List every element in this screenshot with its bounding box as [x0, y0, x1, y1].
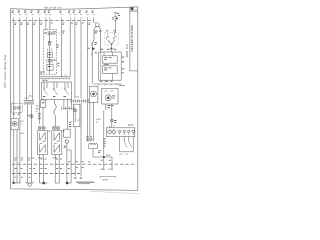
blower switch SW3 strip — [110, 125, 114, 127]
wire module left edge — [103, 111, 105, 158]
ground G100 bracket — [12, 182, 20, 183]
horizontal wire y157 — [93, 156, 112, 158]
circuit breaker CB1 — [47, 53, 52, 58]
relay labels below — [100, 80, 113, 83]
svg-text:1997 4.6: 1997 4.6 — [126, 44, 129, 58]
leads below — [90, 102, 94, 141]
wire x81 lower — [80, 103, 82, 164]
labels below bus A left — [15, 167, 84, 169]
relay K1 contact box — [103, 66, 118, 74]
blower resistor R1 box — [38, 131, 48, 155]
blower terminal circle 1a — [38, 126, 41, 129]
svg-text:BLK: BLK — [21, 133, 26, 135]
wire x=74.9 — [74, 21, 76, 99]
wires below C212 — [28, 105, 32, 183]
blower terminal circle 2a — [53, 126, 56, 129]
junction node J1 — [103, 156, 105, 158]
labels above bus A right — [68, 160, 90, 163]
corner box number — [131, 7, 134, 10]
leads below box — [106, 104, 112, 119]
SW2 top marks — [106, 29, 115, 32]
blower resistor R2 box — [52, 131, 62, 155]
svg-text:RES: RES — [106, 155, 111, 157]
svg-text:A/C: A/C — [21, 120, 25, 123]
page edge shadow bottom right — [90, 191, 140, 194]
F1 labels — [44, 31, 56, 34]
text block below comb B — [69, 122, 72, 127]
connector C212 comb — [24, 100, 35, 103]
blower motor M2 box — [102, 88, 118, 104]
connector block on wire — [111, 48, 113, 50]
C203 pins from box — [64, 100, 72, 107]
ground G201 bracket — [100, 176, 116, 178]
SW3 terminals — [118, 130, 120, 132]
wire from S1 down — [92, 26, 100, 84]
wire SW2 to K1 — [111, 45, 113, 52]
wire x=32.6 — [32, 21, 34, 101]
A/C clutch M1 box — [11, 119, 18, 130]
resistor R2 element — [54, 133, 60, 153]
text rows left — [38, 113, 41, 119]
wire from C105 — [115, 20, 116, 33]
connector C233 comb — [72, 100, 88, 102]
SW3 switch contacts — [124, 142, 131, 148]
ground junction dot G104 — [66, 182, 69, 185]
diode box D1 — [64, 129, 71, 137]
wire x=87.6 — [87, 21, 89, 142]
right column inner line — [130, 7, 138, 71]
connector paren upper — [91, 43, 92, 46]
wire x=13.8 — [13, 21, 15, 118]
F2 label — [53, 59, 55, 62]
specks below bus B — [15, 176, 31, 179]
bottom dashed bus B — [12, 173, 81, 175]
svg-text:HEATER SYSTEM: HEATER SYSTEM — [130, 26, 134, 52]
wire x=70.2 — [69, 21, 71, 77]
wire x=26.3 — [25, 21, 27, 101]
pressure switch SW2 outline — [105, 32, 119, 45]
wire x=19.9 — [19, 21, 21, 183]
fuse panel lower box — [47, 64, 53, 70]
labels above bottom bus A left — [15, 158, 111, 161]
relay labels right — [122, 57, 124, 74]
connector C104 x-box — [87, 136, 91, 141]
SW2 legs converge — [108, 40, 115, 45]
pin circles — [43, 88, 45, 90]
wire x=39.6 — [39, 21, 41, 125]
border frame — [11, 7, 138, 191]
labels near connector — [87, 42, 97, 53]
thermal limiter terminal — [74, 109, 77, 112]
wire below narrow box — [74, 127, 76, 165]
C204 terminal x-circles — [13, 106, 16, 109]
labels left of SW3 — [103, 139, 106, 147]
SW3 collector rail — [120, 151, 134, 153]
wire x=61.6 — [61, 21, 63, 77]
wires down to ground labels — [104, 157, 112, 170]
compressor clutch coil box — [89, 86, 98, 102]
wire below C203 — [67, 110, 69, 129]
blower terminal circle 1b — [42, 126, 45, 129]
ground junction dot G102 — [42, 182, 45, 185]
contact labels — [57, 45, 59, 48]
resistor R1 element — [40, 133, 46, 153]
fuse F1 — [48, 32, 51, 35]
box inner switch diagonals — [44, 90, 68, 95]
SW3 bottom marks — [119, 154, 128, 155]
clutch coil circle — [91, 91, 97, 97]
wire x=45.9 — [45, 21, 47, 30]
SW2 contact blade right — [113, 33, 116, 39]
resistor coil L1 — [89, 143, 98, 144]
wire from L1 down — [92, 149, 94, 157]
connector rail C201 — [40, 77, 70, 79]
box inner marks — [43, 95, 66, 98]
connector paren lower — [91, 52, 92, 55]
svg-text:BLK: BLK — [36, 106, 41, 108]
connector circle C105 — [114, 16, 118, 20]
ground G100 junction dot — [13, 182, 15, 184]
SW3 diamond terminal — [108, 130, 117, 134]
svg-text:WHT: WHT — [36, 108, 41, 110]
bottom dashed bus A — [12, 163, 136, 165]
relay K1 coil box — [103, 56, 118, 63]
relay pin labels above — [100, 48, 116, 51]
svg-text:1997 System Wiring Diag: 1997 System Wiring Diag — [4, 54, 7, 88]
connector box C202 on wire 43 — [42, 99, 44, 102]
connector arrow wedge — [92, 47, 95, 51]
connector marks mid — [47, 49, 52, 52]
SW3 internal wires — [120, 137, 134, 152]
blower terminal circle 2b — [57, 126, 60, 129]
wire x=71 — [70, 150, 72, 183]
svg-text:COIL: COIL — [89, 139, 95, 141]
ground G103 rail — [55, 182, 59, 184]
connector hook top right — [114, 13, 117, 17]
svg-text:GRN: GRN — [96, 119, 101, 121]
M1 leads — [14, 130, 17, 183]
connector C204 dashed box — [13, 114, 30, 116]
page background — [0, 0, 145, 200]
resistor assembly narrow box — [73, 104, 80, 126]
top dashed bus — [12, 20, 94, 22]
box inner pin pairs — [44, 82, 68, 88]
SW2 contact blade left — [106, 33, 109, 39]
splice S301 — [30, 115, 33, 118]
svg-text:GRND: GRND — [102, 180, 109, 182]
fuse panel wire — [49, 35, 51, 75]
fuse panel dashed box — [44, 30, 57, 75]
contact pair — [49, 42, 51, 46]
tiny labels below bus — [15, 23, 91, 25]
tiny labels above bus — [12, 11, 94, 14]
connector C203 comb — [62, 107, 74, 109]
motor M2 circle — [105, 95, 111, 101]
svg-text:Hot at all tim: Hot at all tim — [44, 6, 62, 10]
fuse F2 — [48, 59, 51, 62]
wire 43 to terminals — [42, 107, 44, 126]
motor M1 circle — [12, 121, 17, 126]
wire x=93.7 top stub — [93, 21, 95, 23]
connector hooks above bus — [13, 15, 95, 21]
horizontal wire y84 — [93, 83, 121, 85]
corner box line — [130, 10, 138, 12]
relay K1 box — [99, 52, 122, 80]
ignition switch S1 contact circle — [95, 23, 99, 27]
wires in bottom zone continuing — [75, 164, 81, 176]
leads below zigzag boxes — [40, 155, 60, 184]
wire x=81 — [80, 21, 82, 99]
ground G101 circle — [26, 182, 33, 183]
resistive wire jog — [54, 100, 57, 127]
wire x=49.9 — [49, 21, 51, 30]
ignition switch SW1 box — [42, 82, 72, 100]
